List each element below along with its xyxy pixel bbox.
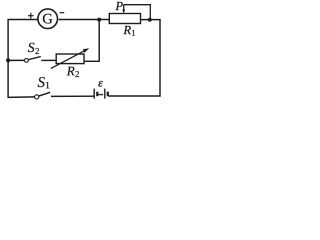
label P [115,2,122,10]
switch S2 [25,57,41,63]
wire: vertical connector node A down to R2 branch [98,20,100,62]
node A junction dot (top wire to R2 branch) [97,18,101,22]
wire: top, node A to R1 left [99,19,109,21]
wire: slider tap up and over to right [124,5,151,20]
wire: left vertical side [7,20,9,98]
wire: middle branch, S2 fixed contact to R2 [41,59,56,61]
label S1 [38,77,50,88]
node: left-wire junction of R2 branch [6,58,10,62]
background [0,0,168,104]
cell 1 long plate [93,89,95,99]
wire: top, left corner to G [8,19,38,21]
switch S1 [35,92,51,99]
label R1 [123,26,135,36]
wire: middle branch, R2 right stub [84,60,99,62]
wire: bottom, battery to right corner [108,95,160,97]
battery epsilon [94,89,108,99]
label epsilon [98,81,102,87]
wire: middle branch, node to S2 [8,59,24,61]
wire: top, G to node A [59,19,100,21]
minus polarity mark of G [60,12,65,14]
galvanometer G [38,9,58,29]
wire: bottom, left corner to S1 [8,96,35,99]
wire: R1 right to right corner [141,19,161,21]
arrow through R2 [51,48,89,68]
plus polarity mark of G [28,13,34,19]
cell 2 short plate [107,92,109,97]
wire: bottom, S1 to battery [51,95,94,97]
cell 2 long plate [104,89,106,99]
resistor R2 (adjustable) [56,54,84,64]
slider arrow P of R1 [122,5,125,14]
resistor R1 (rheostat body) [109,14,140,24]
label S2 [28,43,39,54]
label R2 [67,67,79,77]
dots between battery cells [98,94,103,95]
cell 1 short plate [96,92,98,97]
junction dot: slider tap joins main wire [148,18,152,22]
wire: right vertical side [159,19,161,96]
